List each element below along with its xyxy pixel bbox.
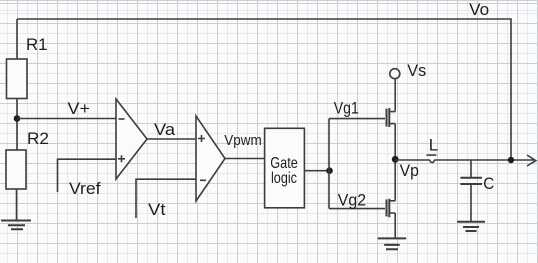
svg-text:C: C [483, 174, 494, 193]
svg-text:Vpwm: Vpwm [224, 132, 261, 149]
svg-text:Vg2: Vg2 [338, 190, 366, 209]
svg-text:Vs: Vs [407, 61, 426, 80]
svg-text:R2: R2 [27, 129, 49, 148]
svg-text:Vp: Vp [400, 161, 419, 180]
svg-text:Va: Va [154, 120, 176, 139]
svg-text:Vo: Vo [469, 0, 489, 19]
svg-text:Vref: Vref [69, 179, 101, 198]
svg-text:logic: logic [271, 170, 297, 187]
svg-text:R1: R1 [26, 35, 48, 54]
svg-text:V+: V+ [68, 99, 91, 118]
svg-text:Vt: Vt [148, 200, 166, 219]
svg-text:Vg1: Vg1 [334, 99, 359, 118]
svg-text:L: L [429, 136, 438, 155]
